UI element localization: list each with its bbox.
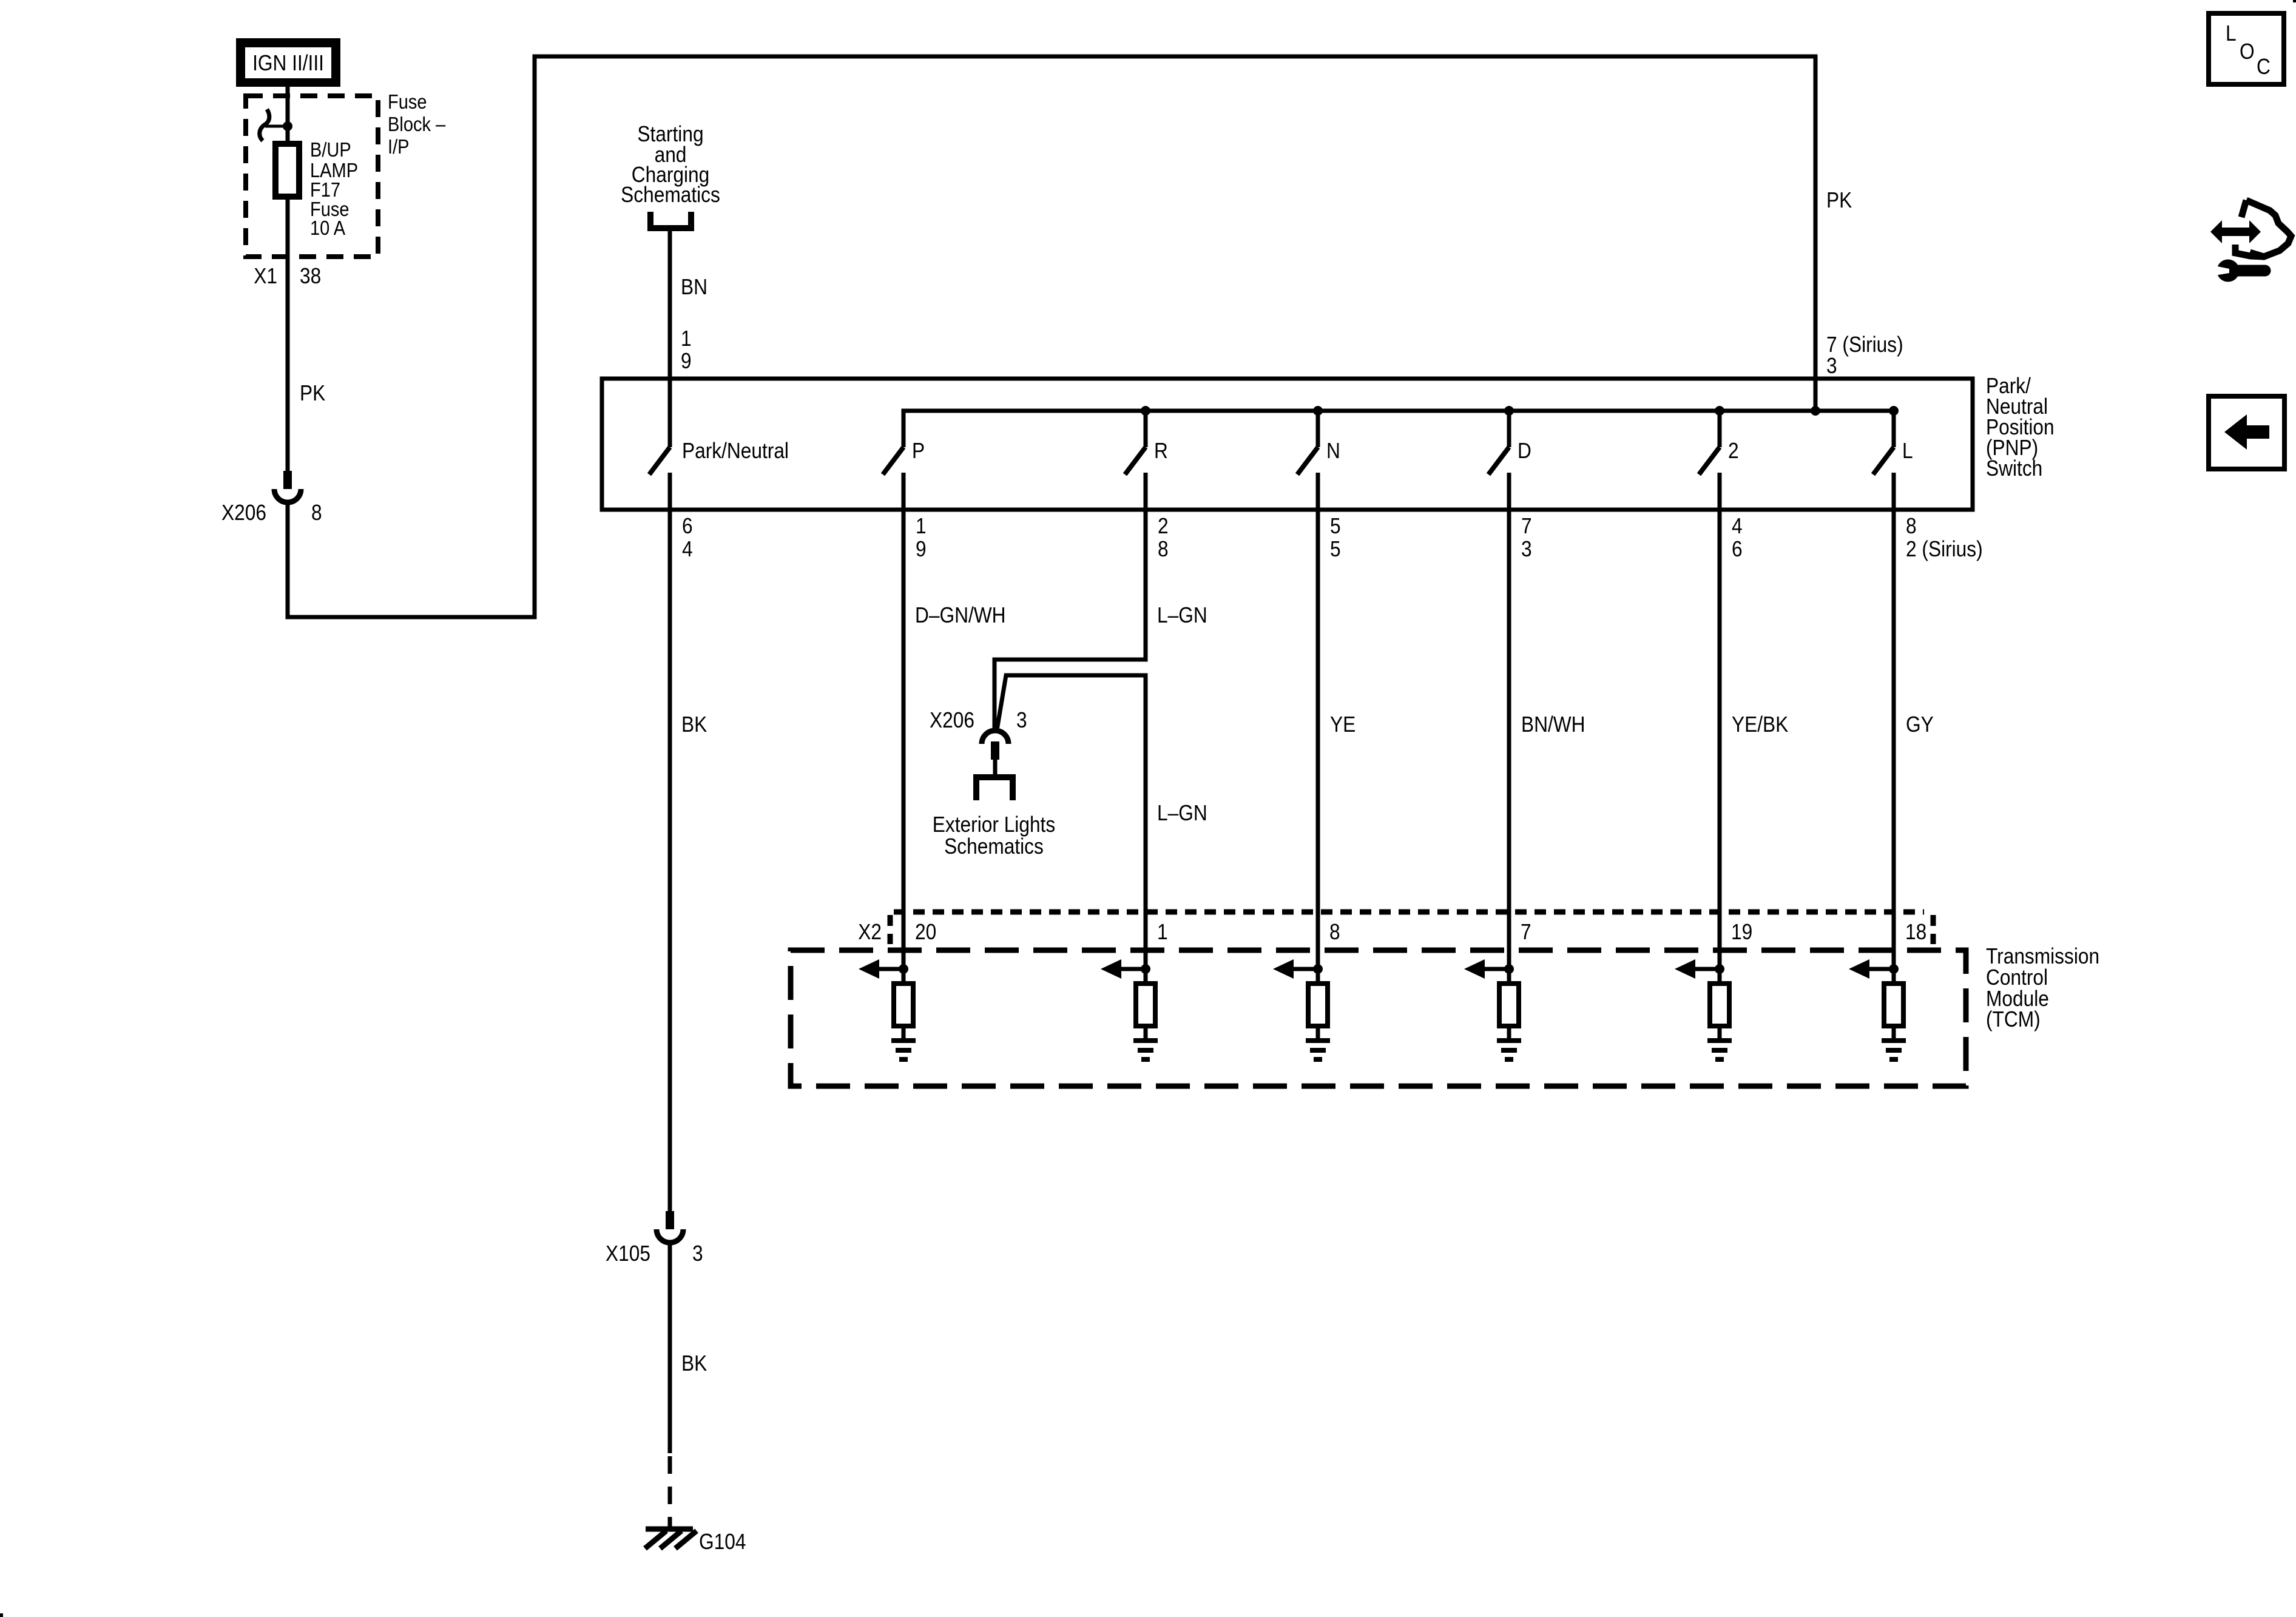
svg-text:PK: PK [300,381,326,405]
svg-text:7: 7 [1521,920,1531,944]
svg-text:3: 3 [1521,537,1532,561]
svg-text:R: R [1154,439,1168,463]
svg-text:X206: X206 [930,708,974,732]
svg-text:O: O [2240,39,2255,64]
svg-text:3: 3 [692,1241,703,1266]
svg-text:5: 5 [1330,514,1341,538]
svg-text:8: 8 [1329,920,1340,944]
svg-text:Switch: Switch [1986,456,2042,481]
svg-text:6: 6 [1732,537,1743,561]
svg-text:19: 19 [1731,920,1752,944]
svg-text:BK: BK [681,1351,707,1376]
svg-text:5: 5 [1330,537,1341,561]
svg-text:X206: X206 [221,501,266,525]
svg-text:L–GN: L–GN [1157,603,1207,627]
svg-text:8: 8 [311,501,322,525]
svg-text:X1: X1 [254,264,277,288]
svg-text:YE/BK: YE/BK [1732,712,1789,737]
svg-text:2: 2 [1728,439,1739,463]
svg-text:6: 6 [682,514,693,538]
svg-text:38: 38 [300,264,321,288]
svg-text:C: C [2257,55,2271,79]
svg-text:D: D [1518,439,1531,463]
svg-text:3: 3 [1826,354,1837,378]
svg-text:1: 1 [916,514,927,538]
svg-text:8: 8 [1158,537,1169,561]
svg-text:Schematics: Schematics [621,183,720,207]
svg-text:P: P [912,439,925,463]
svg-text:Schematics: Schematics [944,834,1044,859]
svg-text:7 (Sirius): 7 (Sirius) [1826,333,1903,357]
svg-text:G104: G104 [699,1530,746,1554]
svg-text:20: 20 [915,920,936,944]
svg-text:L: L [2226,21,2237,46]
svg-text:BN: BN [681,275,707,299]
svg-text:4: 4 [1732,514,1743,538]
svg-text:7: 7 [1521,514,1532,538]
svg-text:2 (Sirius): 2 (Sirius) [1906,537,1983,561]
svg-text:1: 1 [1157,920,1168,944]
svg-text:L–GN: L–GN [1157,801,1207,825]
svg-text:BK: BK [681,712,707,737]
svg-text:GY: GY [1906,712,1934,737]
svg-text:Fuse: Fuse [388,90,427,113]
svg-text:Park/Neutral: Park/Neutral [682,439,789,463]
svg-text:PK: PK [1826,188,1852,212]
svg-text:B/UP: B/UP [310,138,351,161]
svg-text:D–GN/WH: D–GN/WH [915,603,1006,627]
svg-text:1: 1 [681,326,692,351]
svg-text:N: N [1326,439,1340,463]
svg-text:YE: YE [1330,712,1356,737]
svg-text:2: 2 [1158,514,1169,538]
svg-text:IGN II/III: IGN II/III [252,51,324,75]
svg-text:Exterior Lights: Exterior Lights [933,812,1055,837]
svg-text:BN/WH: BN/WH [1521,712,1585,737]
svg-text:X2: X2 [858,920,882,944]
svg-text:3: 3 [1016,708,1027,732]
svg-text:9: 9 [681,349,692,373]
svg-text:4: 4 [682,537,693,561]
svg-text:9: 9 [916,537,927,561]
svg-text:10 A: 10 A [310,217,345,239]
svg-text:X105: X105 [606,1241,650,1266]
svg-text:L: L [1902,439,1913,463]
svg-text:I/P: I/P [388,135,410,158]
svg-text:(TCM): (TCM) [1986,1007,2041,1031]
svg-text:Block –: Block – [388,113,446,135]
svg-text:8: 8 [1906,514,1917,538]
svg-text:18: 18 [1905,920,1926,944]
